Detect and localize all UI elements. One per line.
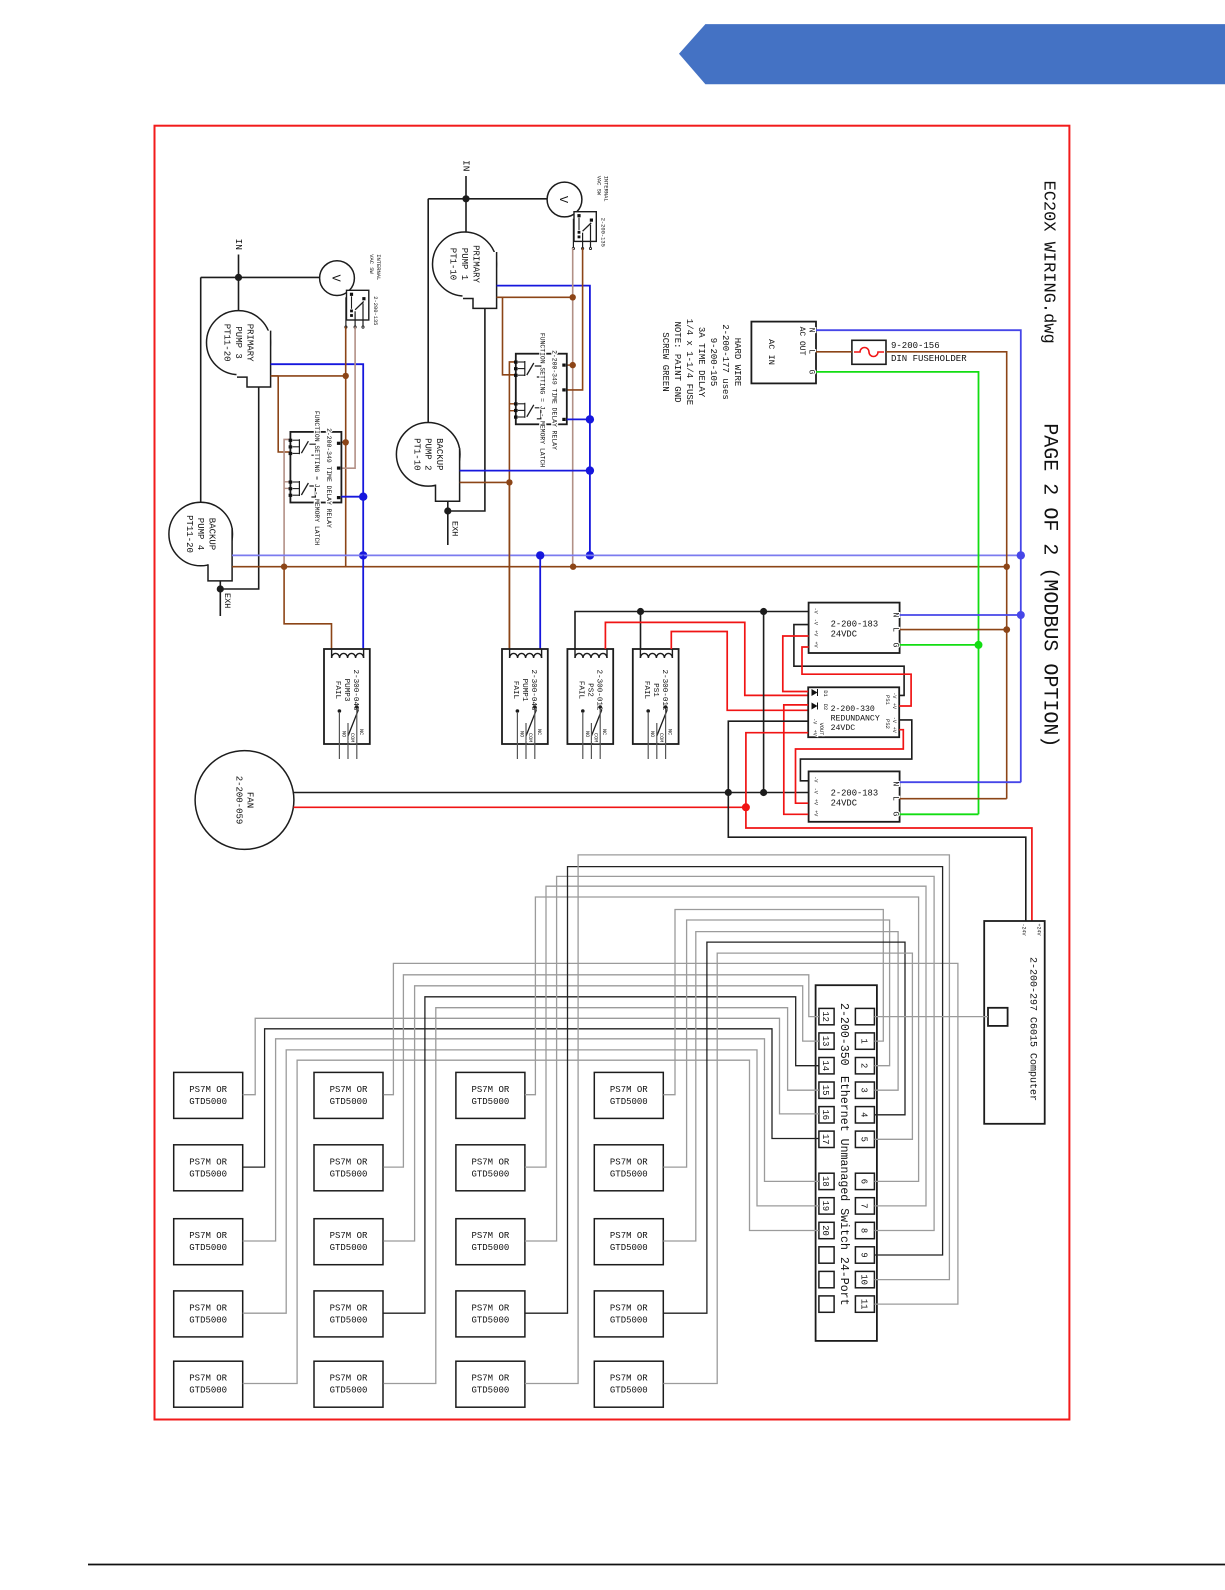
svg-text:NO: NO: [649, 731, 655, 737]
svg-text:D1: D1: [822, 690, 828, 696]
svg-text:GTD5000: GTD5000: [610, 1097, 648, 1107]
svg-text:PS7M OR: PS7M OR: [330, 1374, 368, 1384]
svg-text:PS7M OR: PS7M OR: [610, 1303, 648, 1313]
svg-text:PS7M OR: PS7M OR: [330, 1231, 368, 1241]
svg-text:24VDC: 24VDC: [831, 724, 856, 733]
svg-text:GTD5000: GTD5000: [189, 1097, 227, 1107]
svg-text:2-200-135: 2-200-135: [372, 296, 378, 325]
svg-text:INTERNAL: INTERNAL: [603, 176, 609, 202]
svg-text:12: 12: [820, 1011, 830, 1022]
svg-text:Ethernet Unmanaged Switch 24-P: Ethernet Unmanaged Switch 24-Port: [837, 1076, 850, 1306]
svg-text:NOTE: PAINT GND: NOTE: PAINT GND: [672, 321, 682, 402]
svg-text:-V: -V: [813, 619, 819, 625]
svg-text:+V: +V: [813, 810, 819, 816]
svg-text:-V: -V: [813, 776, 819, 782]
svg-text:PS7M OR: PS7M OR: [610, 1157, 648, 1167]
svg-text:PS7M OR: PS7M OR: [610, 1374, 648, 1384]
svg-text:17: 17: [820, 1134, 830, 1145]
svg-text:2-200-177 uses: 2-200-177 uses: [720, 324, 730, 400]
svg-text:GTD5000: GTD5000: [471, 1169, 509, 1179]
svg-text:N: N: [891, 613, 900, 618]
svg-text:GTD5000: GTD5000: [471, 1243, 509, 1253]
svg-text:FAIL: FAIL: [576, 681, 584, 700]
svg-text:GTD5000: GTD5000: [330, 1243, 368, 1253]
svg-text:G: G: [891, 811, 900, 816]
svg-text:N: N: [891, 781, 900, 786]
svg-text:PS7M OR: PS7M OR: [189, 1157, 227, 1167]
svg-text:L: L: [891, 796, 900, 801]
svg-text:+24V: +24V: [1036, 924, 1042, 936]
svg-text:HARD WIRE: HARD WIRE: [732, 338, 742, 387]
svg-text:GTD5000: GTD5000: [471, 1097, 509, 1107]
svg-text:PAGE 2 OF 2 (MODBUS OPTION): PAGE 2 OF 2 (MODBUS OPTION): [1038, 423, 1061, 747]
svg-text:FAIL: FAIL: [333, 681, 341, 700]
svg-text:PT11-20: PT11-20: [184, 515, 194, 553]
svg-text:3A TIME DELAY: 3A TIME DELAY: [696, 327, 706, 398]
svg-text:11: 11: [858, 1299, 868, 1310]
svg-text:2-200-183: 2-200-183: [831, 788, 879, 798]
svg-text:VAC SW: VAC SW: [368, 254, 374, 274]
svg-text:10: 10: [858, 1274, 868, 1285]
svg-text:PS7M OR: PS7M OR: [330, 1157, 368, 1167]
svg-text:18: 18: [820, 1176, 830, 1187]
svg-text:2-200-183: 2-200-183: [831, 620, 879, 630]
svg-text:SCREW GREEN: SCREW GREEN: [660, 332, 670, 391]
svg-text:PRIMARY: PRIMARY: [470, 245, 480, 283]
svg-text:G: G: [807, 369, 816, 374]
svg-text:FAIL: FAIL: [642, 681, 650, 700]
svg-text:PUMP 2: PUMP 2: [423, 438, 433, 470]
svg-text:VAC SW: VAC SW: [596, 176, 602, 196]
svg-text:9-200-156: 9-200-156: [891, 341, 940, 351]
svg-text:PS7M OR: PS7M OR: [189, 1231, 227, 1241]
svg-text:V: V: [556, 196, 570, 204]
svg-text:2-300-012: 2-300-012: [660, 669, 668, 710]
svg-text:9: 9: [858, 1252, 868, 1257]
svg-text:NC: NC: [536, 729, 542, 735]
svg-text:3: 3: [858, 1088, 868, 1093]
svg-text:D2: D2: [822, 704, 828, 710]
svg-text:GTD5000: GTD5000: [189, 1315, 227, 1325]
svg-text:PS7M OR: PS7M OR: [471, 1303, 509, 1313]
svg-text:2-200-135: 2-200-135: [600, 218, 606, 247]
svg-text:-V: -V: [813, 608, 819, 614]
svg-text:19: 19: [820, 1201, 830, 1212]
svg-text:-V: -V: [891, 717, 897, 723]
svg-text:6: 6: [858, 1179, 868, 1184]
svg-text:+V: +V: [813, 641, 819, 647]
svg-text:GTD5000: GTD5000: [189, 1243, 227, 1253]
svg-text:FUNCTION SETTING = J - MEMORY: FUNCTION SETTING = J - MEMORY LATCH: [313, 411, 320, 545]
svg-text:+V: +V: [813, 630, 819, 636]
svg-text:PS7M OR: PS7M OR: [471, 1231, 509, 1241]
svg-text:PS7M OR: PS7M OR: [330, 1085, 368, 1095]
svg-text:2-300-048: 2-300-048: [351, 669, 359, 710]
svg-text:GTD5000: GTD5000: [471, 1386, 509, 1396]
svg-text:PUMP 3: PUMP 3: [233, 326, 243, 358]
svg-text:PS7M OR: PS7M OR: [189, 1374, 227, 1384]
svg-text:BACKUP: BACKUP: [434, 438, 444, 470]
svg-text:15: 15: [820, 1085, 830, 1096]
svg-text:PT1-10: PT1-10: [448, 248, 458, 280]
svg-text:PS7M OR: PS7M OR: [610, 1085, 648, 1095]
svg-text:PRIMARY: PRIMARY: [244, 324, 254, 362]
svg-text:+V: +V: [891, 703, 897, 709]
svg-text:GTD5000: GTD5000: [189, 1169, 227, 1179]
svg-text:REDUNDANCY: REDUNDANCY: [831, 715, 880, 724]
svg-text:24VDC: 24VDC: [831, 630, 857, 640]
svg-text:EXH: EXH: [450, 521, 460, 536]
svg-text:COM: COM: [592, 733, 598, 742]
svg-text:GTD5000: GTD5000: [610, 1243, 648, 1253]
svg-text:EXH: EXH: [222, 593, 232, 608]
svg-text:PT11-20: PT11-20: [222, 324, 232, 362]
svg-text:EC20X WIRING.dwg: EC20X WIRING.dwg: [1039, 181, 1058, 344]
svg-text:NC: NC: [667, 729, 673, 735]
svg-text:GTD5000: GTD5000: [330, 1169, 368, 1179]
svg-text:PS7M OR: PS7M OR: [471, 1374, 509, 1384]
svg-text:1: 1: [858, 1038, 868, 1043]
svg-text:GTD5000: GTD5000: [330, 1315, 368, 1325]
svg-text:GTD5000: GTD5000: [330, 1097, 368, 1107]
svg-text:FUNCTION SETTING = J - MEMORY: FUNCTION SETTING = J - MEMORY LATCH: [539, 333, 546, 467]
svg-text:+V: +V: [813, 799, 819, 805]
svg-text:BACKUP: BACKUP: [207, 518, 217, 550]
svg-text:-V: -V: [891, 692, 897, 698]
svg-text:FAN: FAN: [245, 792, 255, 808]
svg-text:2-300-048: 2-300-048: [529, 669, 537, 710]
svg-text:GTD5000: GTD5000: [330, 1386, 368, 1396]
svg-text:20: 20: [820, 1225, 830, 1236]
svg-text:GTD5000: GTD5000: [471, 1315, 509, 1325]
svg-text:24VDC: 24VDC: [831, 798, 857, 808]
svg-text:PUMP 1: PUMP 1: [459, 248, 469, 280]
svg-text:16: 16: [820, 1110, 830, 1121]
svg-text:PUMP 4: PUMP 4: [195, 518, 205, 550]
svg-text:PS1: PS1: [884, 695, 890, 705]
svg-text:2-200-059: 2-200-059: [233, 776, 243, 825]
svg-text:GTD5000: GTD5000: [610, 1169, 648, 1179]
svg-text:GTD5000: GTD5000: [610, 1315, 648, 1325]
svg-text:14: 14: [820, 1060, 830, 1071]
svg-text:NO: NO: [340, 731, 346, 737]
svg-text:5: 5: [858, 1137, 868, 1142]
svg-text:2: 2: [858, 1063, 868, 1068]
svg-text:PS7M OR: PS7M OR: [189, 1303, 227, 1313]
svg-text:2-200-330: 2-200-330: [831, 705, 875, 714]
svg-text:2-200-350: 2-200-350: [837, 1003, 850, 1066]
svg-text:NO: NO: [584, 731, 590, 737]
svg-text:-V: -V: [812, 718, 818, 724]
svg-text:PS7M OR: PS7M OR: [471, 1157, 509, 1167]
svg-text:4: 4: [858, 1112, 868, 1117]
svg-text:+V: +V: [812, 730, 818, 736]
svg-text:PS2: PS2: [884, 719, 890, 729]
svg-text:GTD5000: GTD5000: [610, 1386, 648, 1396]
svg-text:FAIL: FAIL: [511, 681, 519, 700]
svg-text:L: L: [891, 627, 900, 632]
svg-text:PS7M OR: PS7M OR: [330, 1303, 368, 1313]
svg-text:PT1-10: PT1-10: [411, 438, 421, 470]
svg-text:COM: COM: [527, 733, 533, 742]
svg-text:COM: COM: [658, 733, 664, 742]
svg-text:VOUT: VOUT: [818, 723, 824, 735]
svg-text:GTD5000: GTD5000: [189, 1386, 227, 1396]
svg-text:13: 13: [820, 1036, 830, 1047]
svg-text:NO: NO: [518, 731, 524, 737]
svg-text:PUMP1: PUMP1: [520, 679, 528, 702]
svg-text:PUMP3: PUMP3: [342, 679, 350, 702]
svg-text:2-200-349 TIME DELAY RELAY: 2-200-349 TIME DELAY RELAY: [551, 350, 558, 450]
svg-text:INTERNAL: INTERNAL: [375, 254, 381, 280]
svg-text:PS1: PS1: [651, 683, 659, 697]
svg-text:-V: -V: [813, 788, 819, 794]
svg-text:NC: NC: [358, 729, 364, 735]
svg-text:L: L: [807, 349, 816, 354]
svg-text:AC IN: AC IN: [766, 339, 776, 365]
svg-text:-24V: -24V: [1021, 924, 1027, 936]
svg-text:1/4 x 1-1/4 FUSE: 1/4 x 1-1/4 FUSE: [684, 319, 694, 405]
svg-text:8: 8: [858, 1228, 868, 1233]
svg-text:PS7M OR: PS7M OR: [189, 1085, 227, 1095]
svg-text:2-200-297 C6015 Computer: 2-200-297 C6015 Computer: [1027, 957, 1038, 1101]
svg-text:DIN FUSEHOLDER: DIN FUSEHOLDER: [891, 354, 967, 364]
svg-text:G: G: [891, 643, 900, 648]
svg-text:NC: NC: [601, 729, 607, 735]
svg-text:9-200-105: 9-200-105: [708, 338, 718, 387]
svg-text:V: V: [329, 274, 343, 282]
svg-text:COM: COM: [349, 733, 355, 742]
svg-text:PS7M OR: PS7M OR: [610, 1231, 648, 1241]
svg-text:2-300-012: 2-300-012: [594, 669, 602, 710]
svg-text:PS7M OR: PS7M OR: [471, 1085, 509, 1095]
svg-text:N: N: [807, 328, 816, 333]
svg-text:2-200-349 TIME DELAY RELAY: 2-200-349 TIME DELAY RELAY: [325, 428, 332, 528]
svg-text:IN: IN: [233, 239, 244, 250]
svg-text:7: 7: [858, 1203, 868, 1208]
svg-text:PS2: PS2: [585, 683, 593, 697]
svg-text:AC OUT: AC OUT: [797, 327, 806, 356]
svg-text:IN: IN: [461, 160, 472, 171]
svg-text:+V: +V: [891, 727, 897, 733]
